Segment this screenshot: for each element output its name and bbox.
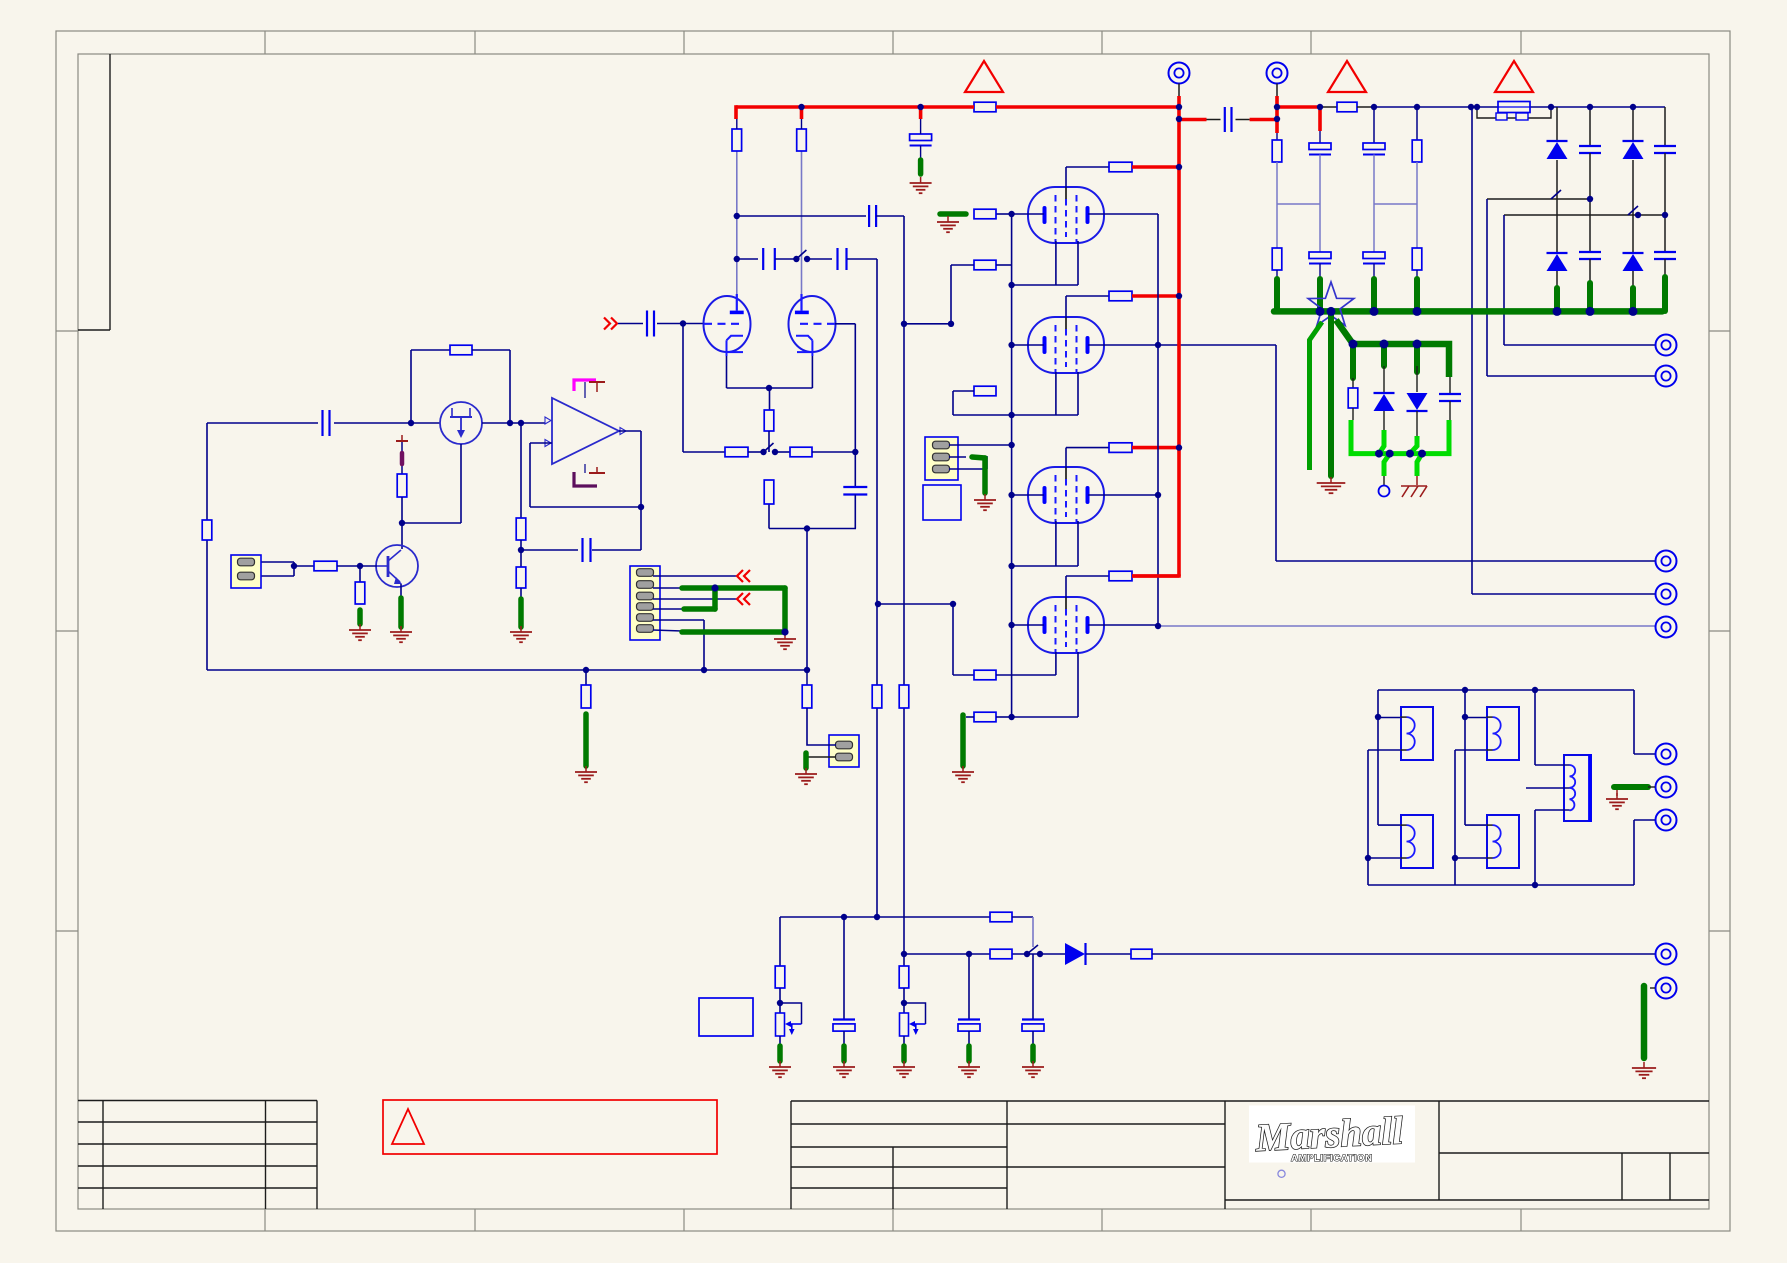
svg-text:AMPLIFICATION: AMPLIFICATION [1291,1153,1373,1164]
